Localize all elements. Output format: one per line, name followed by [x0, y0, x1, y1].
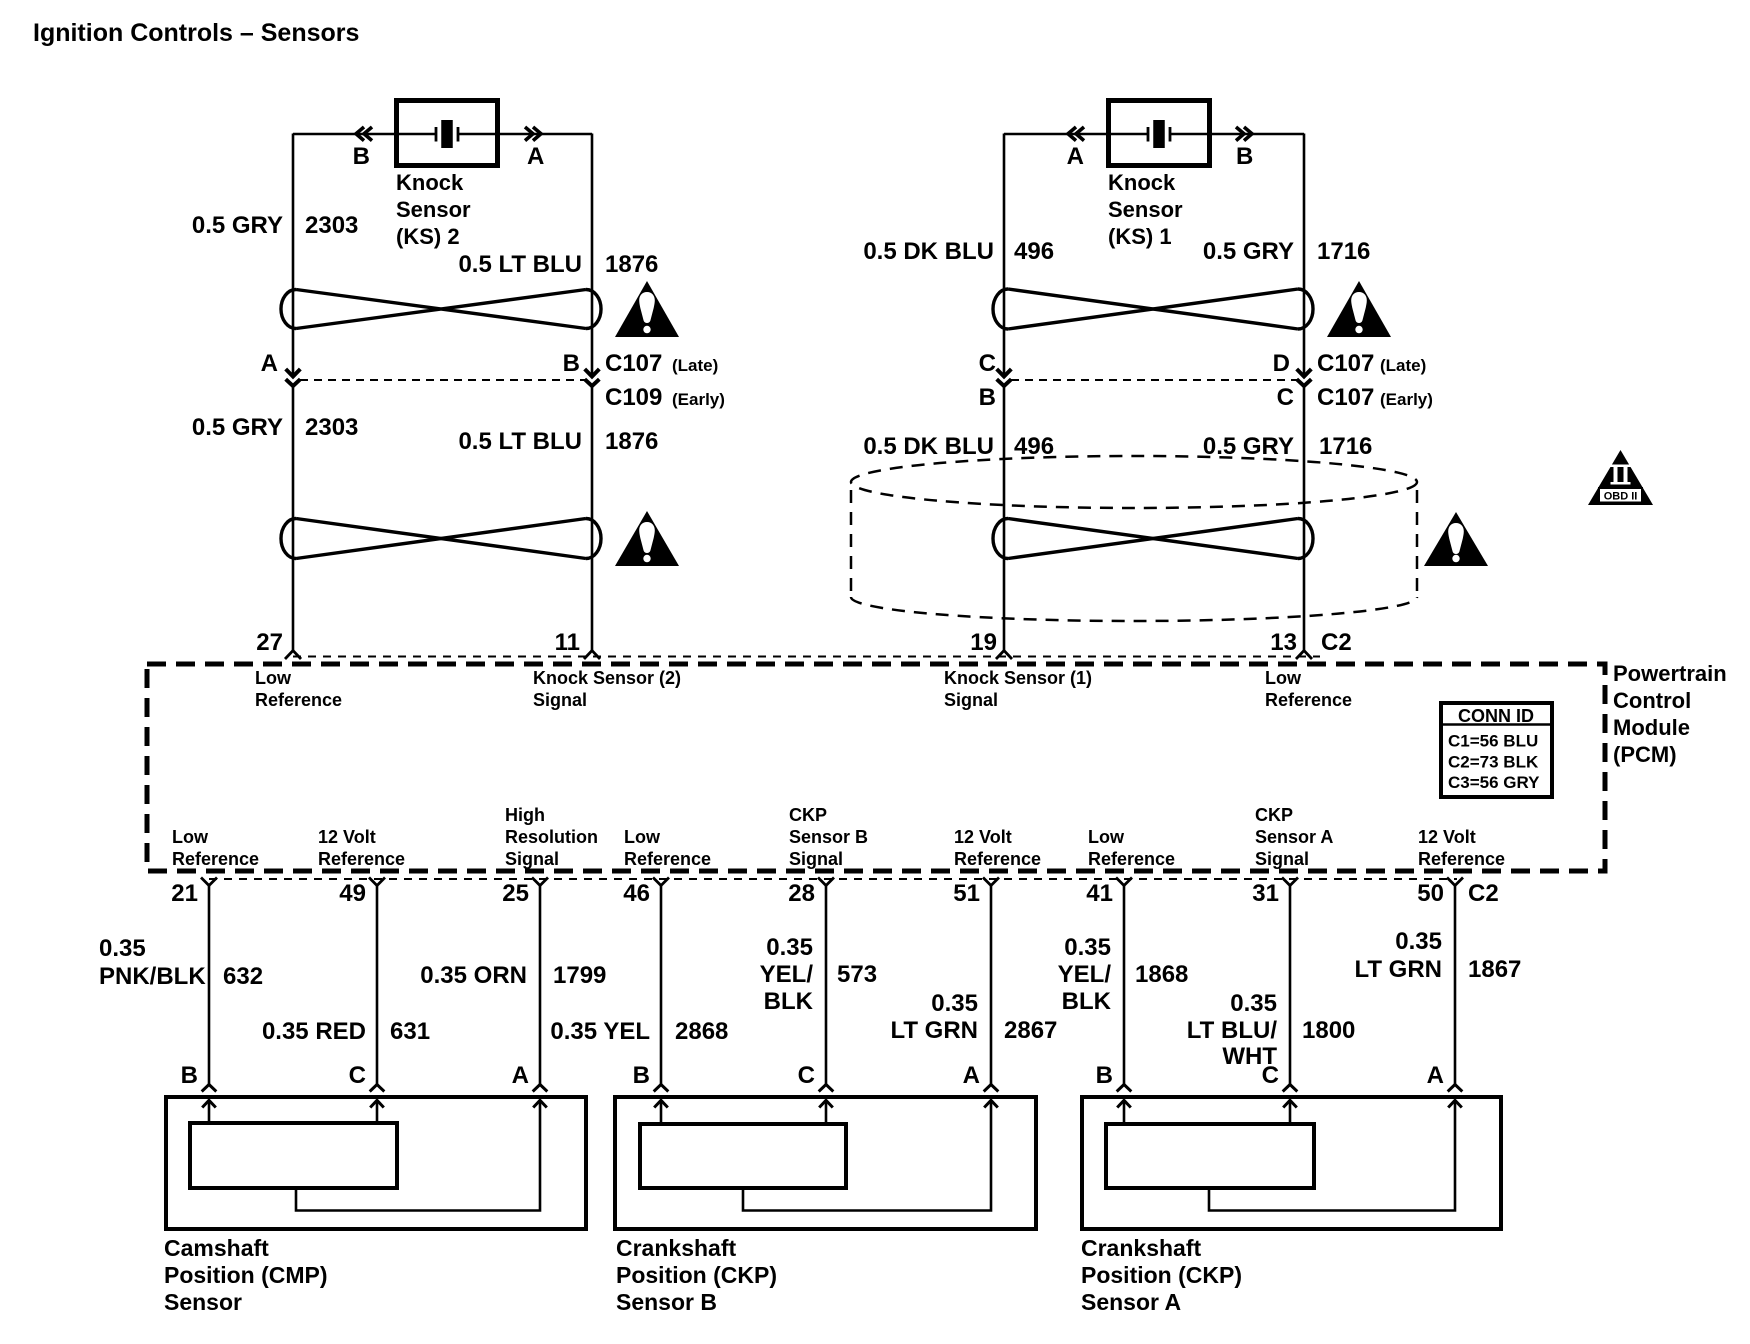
svg-text:BLK: BLK [1062, 988, 1112, 1015]
svg-text:CONN ID: CONN ID [1458, 706, 1534, 726]
svg-text:Knock: Knock [1108, 170, 1176, 195]
svg-text:C: C [798, 1062, 815, 1089]
svg-text:0.35: 0.35 [766, 934, 813, 961]
svg-text:1716: 1716 [1317, 238, 1370, 265]
svg-text:Sensor B: Sensor B [789, 827, 868, 847]
svg-text:Signal: Signal [944, 690, 998, 710]
svg-text:WHT: WHT [1222, 1043, 1277, 1070]
svg-text:(Early): (Early) [1380, 390, 1433, 409]
svg-text:0.5 DK BLU: 0.5 DK BLU [863, 433, 994, 460]
svg-text:632: 632 [223, 963, 263, 990]
pin 25 [532, 878, 548, 886]
crankshaft position (CKP) sensor A [1082, 1097, 1501, 1229]
svg-text:19: 19 [970, 629, 997, 656]
svg-text:C1=56 BLU: C1=56 BLU [1448, 732, 1538, 751]
svg-text:C: C [349, 1062, 366, 1089]
svg-text:(Late): (Late) [672, 356, 718, 375]
svg-text:YEL/: YEL/ [760, 961, 814, 988]
svg-text:High: High [505, 805, 545, 825]
warning symbol 2 [615, 511, 679, 566]
svg-text:Sensor A: Sensor A [1255, 827, 1333, 847]
svg-text:(KS) 2: (KS) 2 [396, 224, 460, 249]
wire from pin 41 [1123, 886, 1126, 1085]
wire KS1 left upper (0.5 DK BLU 496) [1003, 134, 1006, 376]
wire from pin 28 [825, 886, 828, 1085]
svg-text:B: B [181, 1062, 198, 1089]
svg-text:Reference: Reference [172, 849, 259, 869]
svg-text:CKP: CKP [1255, 805, 1293, 825]
CONN ID table [1441, 703, 1552, 797]
thin dashed connector line (PCM top pins) [293, 656, 1320, 658]
pin 13 [1296, 651, 1312, 660]
svg-text:Sensor B: Sensor B [616, 1289, 717, 1315]
svg-text:0.35 YEL: 0.35 YEL [550, 1018, 650, 1045]
svg-text:27: 27 [256, 629, 283, 656]
svg-text:A: A [261, 350, 278, 377]
svg-text:0.35: 0.35 [1395, 928, 1442, 955]
shield cylinder (dashed) [851, 456, 1417, 508]
wire from pin 50 [1454, 886, 1457, 1085]
inline connector KS2 left [286, 369, 301, 377]
pin 41 [1116, 878, 1132, 886]
svg-text:LT GRN: LT GRN [1354, 956, 1442, 983]
svg-text:Sensor: Sensor [396, 197, 471, 222]
svg-text:0.35 RED: 0.35 RED [262, 1018, 366, 1045]
svg-text:C3=56 GRY: C3=56 GRY [1448, 773, 1540, 792]
svg-text:(Late): (Late) [1380, 356, 1426, 375]
svg-text:13: 13 [1270, 629, 1297, 656]
svg-text:Sensor A: Sensor A [1081, 1289, 1181, 1315]
svg-text:51: 51 [953, 880, 980, 907]
svg-text:Sensor: Sensor [1108, 197, 1183, 222]
svg-text:LT GRN: LT GRN [890, 1017, 978, 1044]
svg-text:B: B [353, 143, 370, 170]
svg-text:12 Volt: 12 Volt [954, 827, 1012, 847]
pin 51 [983, 878, 999, 886]
camshaft position (CMP) sensor [166, 1097, 586, 1229]
crankshaft position (CKP) sensor B [615, 1097, 1036, 1229]
twisted pair KS1 upper [993, 289, 1313, 329]
svg-text:C107: C107 [1317, 384, 1374, 411]
svg-text:25: 25 [502, 880, 529, 907]
svg-text:1876: 1876 [605, 251, 658, 278]
wire from pin 21 [208, 886, 211, 1085]
svg-text:Reference: Reference [1418, 849, 1505, 869]
svg-text:1716: 1716 [1319, 433, 1372, 460]
svg-text:Reference: Reference [1088, 849, 1175, 869]
KS1 wire arrows [1068, 127, 1076, 141]
svg-text:YEL/: YEL/ [1058, 961, 1112, 988]
dashed connector line C107/C109 (KS2) [300, 379, 585, 381]
svg-text:A: A [963, 1062, 980, 1089]
svg-text:B: B [563, 350, 580, 377]
svg-text:A: A [512, 1062, 529, 1089]
svg-text:Low: Low [1088, 827, 1125, 847]
svg-text:(Early): (Early) [672, 390, 725, 409]
svg-text:Reference: Reference [1265, 690, 1352, 710]
svg-text:0.35: 0.35 [99, 935, 146, 962]
svg-text:Module: Module [1613, 715, 1690, 740]
svg-text:Low: Low [172, 827, 209, 847]
svg-text:0.5 GRY: 0.5 GRY [192, 212, 283, 239]
svg-text:1800: 1800 [1302, 1017, 1355, 1044]
pin 27 [285, 651, 301, 660]
svg-text:LT BLU/: LT BLU/ [1187, 1017, 1278, 1044]
pin 50 [1447, 878, 1463, 886]
wire KS1 right lower [1303, 386, 1306, 651]
inline connector KS2 right [585, 369, 600, 377]
svg-text:Signal: Signal [533, 690, 587, 710]
svg-text:C107: C107 [1317, 350, 1374, 377]
svg-text:B: B [1096, 1062, 1113, 1089]
svg-text:0.5 LT BLU: 0.5 LT BLU [458, 251, 582, 278]
svg-text:Reference: Reference [624, 849, 711, 869]
svg-text:1867: 1867 [1468, 956, 1521, 983]
svg-text:BLK: BLK [764, 988, 814, 1015]
svg-text:2867: 2867 [1004, 1017, 1057, 1044]
OBD II symbol [1588, 450, 1653, 505]
warning symbol 3 [1327, 281, 1391, 337]
svg-text:21: 21 [171, 880, 198, 907]
svg-text:Signal: Signal [789, 849, 843, 869]
pin 46 [653, 878, 669, 886]
wire from pin 49 [376, 886, 379, 1085]
wire KS2 right lower [591, 386, 594, 651]
svg-text:0.5 DK BLU: 0.5 DK BLU [863, 238, 994, 265]
pin 21 [201, 878, 217, 886]
svg-text:C2: C2 [1321, 629, 1352, 656]
PCM dashed box [147, 664, 1605, 871]
svg-text:Reference: Reference [255, 690, 342, 710]
inline connector KS1 left [997, 369, 1012, 377]
svg-text:28: 28 [788, 880, 815, 907]
svg-text:Low: Low [255, 668, 292, 688]
svg-text:A: A [527, 143, 544, 170]
svg-text:C2: C2 [1468, 880, 1499, 907]
warning symbol 1 [615, 281, 679, 337]
warning symbol 4 [1424, 512, 1488, 566]
wire KS2 left upper (0.5 GRY 2303) [292, 134, 295, 376]
svg-text:Reference: Reference [318, 849, 405, 869]
thin dashed connector line (PCM bottom pins) [209, 878, 1457, 880]
wire from pin 31 [1289, 886, 1292, 1085]
svg-text:Sensor: Sensor [164, 1289, 242, 1315]
wire KS1 right upper (0.5 GRY 1716) [1303, 134, 1306, 376]
svg-text:50: 50 [1417, 880, 1444, 907]
svg-text:0.5 GRY: 0.5 GRY [1203, 433, 1294, 460]
wire from pin 51 [990, 886, 993, 1085]
svg-text:0.5 GRY: 0.5 GRY [1203, 238, 1294, 265]
svg-text:11: 11 [555, 629, 580, 656]
pin 19 [996, 651, 1012, 660]
svg-text:12 Volt: 12 Volt [1418, 827, 1476, 847]
svg-text:Position (CKP): Position (CKP) [616, 1262, 777, 1288]
svg-text:Signal: Signal [505, 849, 559, 869]
svg-text:0.35: 0.35 [1064, 934, 1111, 961]
svg-text:496: 496 [1014, 238, 1054, 265]
svg-text:C: C [979, 350, 996, 377]
svg-text:A: A [1067, 143, 1084, 170]
dashed connector line C107 (KS1) [1011, 379, 1297, 381]
svg-text:0.35 ORN: 0.35 ORN [420, 962, 527, 989]
twisted pair KS1 lower [993, 519, 1313, 559]
svg-text:Camshaft: Camshaft [164, 1235, 269, 1261]
svg-text:C: C [1277, 384, 1294, 411]
svg-text:C109: C109 [605, 384, 662, 411]
twisted pair KS2 upper [281, 289, 601, 328]
svg-text:31: 31 [1252, 880, 1279, 907]
svg-text:573: 573 [837, 961, 877, 988]
svg-text:49: 49 [339, 880, 366, 907]
svg-text:A: A [1427, 1062, 1444, 1089]
svg-text:(PCM): (PCM) [1613, 742, 1677, 767]
svg-text:0.5 GRY: 0.5 GRY [192, 414, 283, 441]
svg-text:496: 496 [1014, 433, 1054, 460]
svg-text:PNK/BLK: PNK/BLK [99, 963, 206, 990]
svg-text:Low: Low [624, 827, 661, 847]
svg-text:B: B [979, 384, 996, 411]
KS2 wire arrows [356, 127, 364, 141]
svg-text:1799: 1799 [553, 962, 606, 989]
knock sensor KS2 [397, 101, 498, 166]
svg-text:Position (CMP): Position (CMP) [164, 1262, 328, 1288]
svg-text:2303: 2303 [305, 212, 358, 239]
svg-text:1876: 1876 [605, 428, 658, 455]
svg-text:2303: 2303 [305, 414, 358, 441]
wire KS2 right upper (0.5 LT BLU 1876) [591, 134, 594, 376]
svg-text:Signal: Signal [1255, 849, 1309, 869]
svg-text:CKP: CKP [789, 805, 827, 825]
pin 31 [1282, 878, 1298, 886]
svg-text:C2=73 BLK: C2=73 BLK [1448, 753, 1539, 772]
svg-text:B: B [1236, 143, 1253, 170]
svg-text:Knock Sensor (2): Knock Sensor (2) [533, 668, 681, 688]
svg-text:Control: Control [1613, 688, 1691, 713]
svg-text:41: 41 [1086, 880, 1113, 907]
svg-text:631: 631 [390, 1018, 430, 1045]
svg-text:Knock Sensor (1): Knock Sensor (1) [944, 668, 1092, 688]
svg-text:46: 46 [623, 880, 650, 907]
wire KS1 left lower [1003, 386, 1006, 651]
svg-text:Position (CKP): Position (CKP) [1081, 1262, 1242, 1288]
svg-text:Low: Low [1265, 668, 1302, 688]
svg-text:Crankshaft: Crankshaft [1081, 1235, 1201, 1261]
svg-text:2868: 2868 [675, 1018, 728, 1045]
inline connector KS1 right [1297, 369, 1312, 377]
svg-text:OBD II: OBD II [1604, 491, 1638, 503]
svg-text:Ignition Controls – Sensors: Ignition Controls – Sensors [33, 19, 359, 47]
svg-text:0.35: 0.35 [931, 990, 978, 1017]
svg-text:Reference: Reference [954, 849, 1041, 869]
svg-text:B: B [633, 1062, 650, 1089]
svg-text:12 Volt: 12 Volt [318, 827, 376, 847]
pin 11 [584, 651, 600, 660]
svg-text:Knock: Knock [396, 170, 464, 195]
svg-text:0.5 LT BLU: 0.5 LT BLU [458, 428, 582, 455]
svg-text:D: D [1273, 350, 1290, 377]
svg-text:0.35: 0.35 [1230, 990, 1277, 1017]
svg-text:Resolution: Resolution [505, 827, 598, 847]
twisted pair KS2 lower [281, 519, 601, 559]
wire from pin 46 [660, 886, 663, 1085]
svg-text:1868: 1868 [1135, 961, 1188, 988]
pin 49 [369, 878, 385, 886]
wire KS2 left lower [292, 386, 295, 651]
svg-text:Crankshaft: Crankshaft [616, 1235, 736, 1261]
svg-text:C107: C107 [605, 350, 662, 377]
pin 28 [818, 878, 834, 886]
svg-text:(KS) 1: (KS) 1 [1108, 224, 1172, 249]
wire from pin 25 [539, 886, 542, 1085]
svg-text:Powertrain: Powertrain [1613, 661, 1727, 686]
knock sensor KS1 [1109, 101, 1210, 166]
